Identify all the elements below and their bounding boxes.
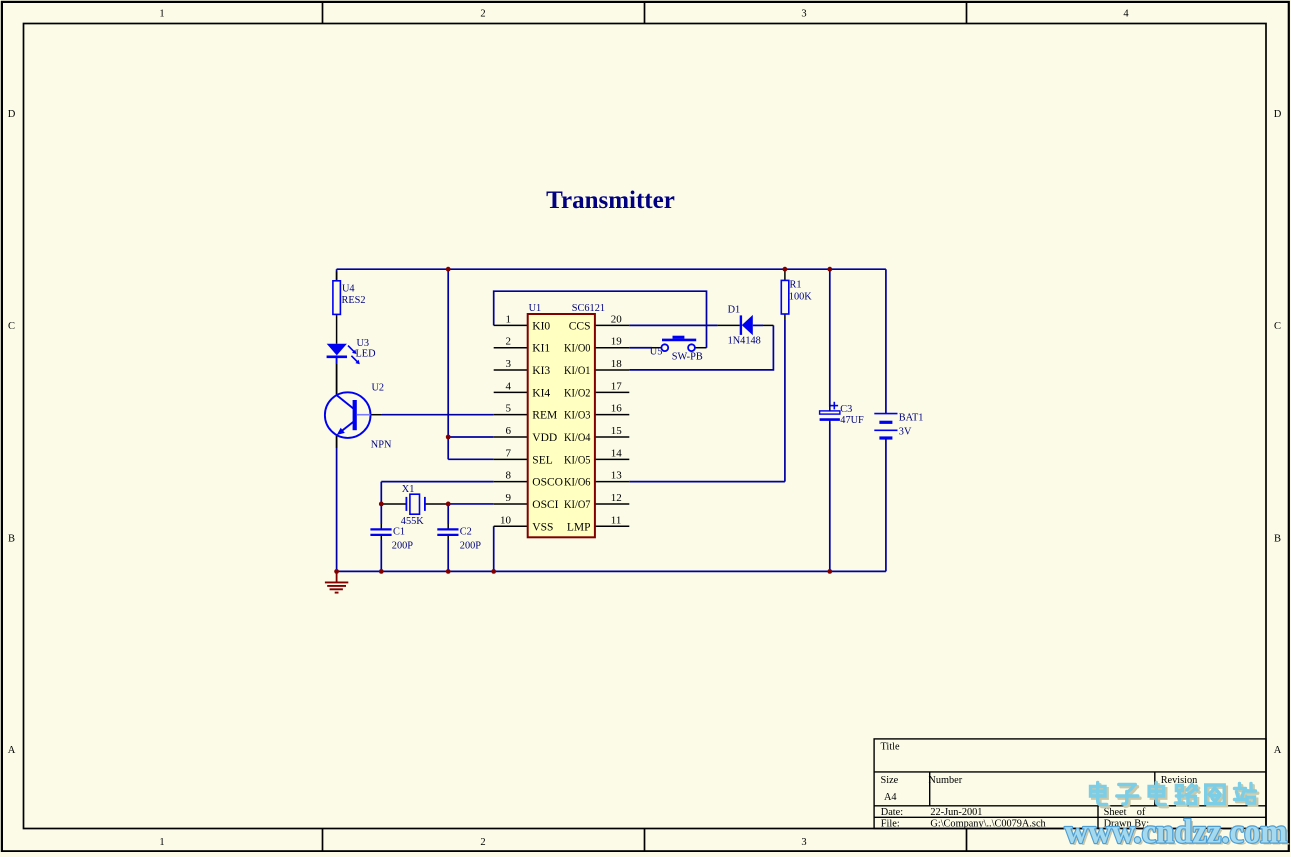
svg-text:A: A xyxy=(8,745,16,756)
svg-text:7: 7 xyxy=(506,447,512,459)
svg-text:15: 15 xyxy=(611,425,623,437)
svg-text:C: C xyxy=(8,321,15,332)
svg-text:RES2: RES2 xyxy=(342,295,366,306)
svg-text:CCS: CCS xyxy=(569,320,591,332)
svg-text:C3: C3 xyxy=(840,404,852,415)
svg-text:OSCO: OSCO xyxy=(532,477,563,489)
svg-text:KI/O2: KI/O2 xyxy=(564,387,591,399)
svg-text:200P: 200P xyxy=(460,541,481,552)
svg-text:3: 3 xyxy=(801,837,806,848)
svg-text:C: C xyxy=(1274,321,1281,332)
svg-text:8: 8 xyxy=(506,470,512,482)
svg-text:D1: D1 xyxy=(728,305,741,316)
svg-text:LMP: LMP xyxy=(567,521,591,533)
svg-text:3: 3 xyxy=(506,358,512,370)
svg-text:KI4: KI4 xyxy=(532,387,550,399)
svg-text:REM: REM xyxy=(532,410,557,422)
svg-text:Size: Size xyxy=(881,775,899,786)
svg-text:KI1: KI1 xyxy=(532,343,550,355)
svg-text:11: 11 xyxy=(611,514,622,526)
svg-text:12: 12 xyxy=(611,492,622,504)
svg-text:A4: A4 xyxy=(884,792,897,803)
svg-text:U4: U4 xyxy=(342,284,355,295)
svg-text:1: 1 xyxy=(159,9,164,20)
svg-text:SW-PB: SW-PB xyxy=(672,352,703,363)
svg-text:5: 5 xyxy=(506,403,512,415)
svg-text:Transmitter: Transmitter xyxy=(546,187,675,214)
svg-text:SC6121: SC6121 xyxy=(572,303,605,314)
svg-text:LED: LED xyxy=(356,349,377,360)
svg-text:C1: C1 xyxy=(393,527,405,538)
svg-text:2: 2 xyxy=(480,837,485,848)
svg-text:OSCI: OSCI xyxy=(532,499,558,511)
svg-text:File:: File: xyxy=(881,819,900,830)
svg-text:1: 1 xyxy=(506,313,512,325)
svg-text:NPN: NPN xyxy=(371,440,392,451)
svg-text:KI/O7: KI/O7 xyxy=(564,499,591,511)
svg-text:KI/O1: KI/O1 xyxy=(564,365,591,377)
svg-text:KI/O0: KI/O0 xyxy=(564,343,591,355)
svg-text:20: 20 xyxy=(611,313,623,325)
svg-text:KI3: KI3 xyxy=(532,365,550,377)
svg-text:2: 2 xyxy=(506,336,512,348)
svg-text:B: B xyxy=(1274,534,1281,545)
svg-text:Number: Number xyxy=(928,775,962,786)
svg-text:3: 3 xyxy=(801,9,806,20)
svg-text:1N4148: 1N4148 xyxy=(728,336,761,347)
svg-text:KI/O4: KI/O4 xyxy=(564,432,591,444)
svg-text:R1: R1 xyxy=(790,280,802,291)
svg-text:6: 6 xyxy=(506,425,512,437)
svg-text:16: 16 xyxy=(611,403,623,415)
svg-text:13: 13 xyxy=(611,470,623,482)
svg-text:U1: U1 xyxy=(529,303,542,314)
svg-text:KI/O5: KI/O5 xyxy=(564,454,591,466)
svg-text:VSS: VSS xyxy=(532,521,553,533)
svg-text:SEL: SEL xyxy=(532,454,552,466)
svg-text:BAT1: BAT1 xyxy=(899,413,924,424)
svg-text:14: 14 xyxy=(611,447,623,459)
svg-text:3V: 3V xyxy=(899,427,912,438)
svg-text:10: 10 xyxy=(500,514,512,526)
svg-text:D: D xyxy=(1274,109,1282,120)
svg-text:X1: X1 xyxy=(402,484,415,495)
svg-text:22-Jun-2001: 22-Jun-2001 xyxy=(930,807,982,818)
svg-text:Date:: Date: xyxy=(881,807,903,818)
svg-text:U5: U5 xyxy=(650,347,663,358)
svg-text:18: 18 xyxy=(611,358,623,370)
svg-text:U2: U2 xyxy=(372,383,385,394)
svg-text:D: D xyxy=(8,109,16,120)
svg-text:455K: 455K xyxy=(401,516,424,527)
svg-text:Title: Title xyxy=(881,742,901,753)
svg-text:B: B xyxy=(8,534,15,545)
svg-text:KI0: KI0 xyxy=(532,320,550,332)
svg-text:G:\Company\..\C0079A.sch: G:\Company\..\C0079A.sch xyxy=(930,819,1046,830)
svg-text:U3: U3 xyxy=(357,338,370,349)
svg-text:www.cndzz.com: www.cndzz.com xyxy=(1065,814,1288,851)
svg-text:2: 2 xyxy=(480,9,485,20)
svg-text:KI/O6: KI/O6 xyxy=(564,477,591,489)
svg-text:17: 17 xyxy=(611,380,623,392)
svg-text:19: 19 xyxy=(611,336,623,348)
svg-text:KI/O3: KI/O3 xyxy=(564,410,591,422)
svg-text:100K: 100K xyxy=(789,292,812,303)
svg-text:4: 4 xyxy=(506,380,512,392)
svg-text:VDD: VDD xyxy=(532,432,557,444)
svg-text:47UF: 47UF xyxy=(840,415,864,426)
svg-text:1: 1 xyxy=(159,837,164,848)
svg-text:9: 9 xyxy=(506,492,512,504)
svg-text:200P: 200P xyxy=(392,541,413,552)
svg-text:C2: C2 xyxy=(460,527,472,538)
svg-text:4: 4 xyxy=(1123,9,1129,20)
svg-text:A: A xyxy=(1274,745,1282,756)
